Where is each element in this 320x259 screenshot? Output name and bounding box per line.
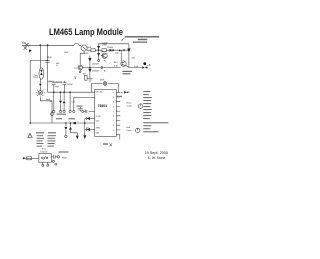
wire Q1 out xyxy=(83,67,121,69)
svg-text:1: 1 xyxy=(113,92,114,94)
capacitor C3 68uF xyxy=(47,45,49,60)
svg-text:7: 7 xyxy=(113,120,114,122)
capacitor C8 xyxy=(63,81,67,92)
wire Vdd bus xyxy=(48,91,95,93)
svg-text:100K: 100K xyxy=(64,52,69,54)
capacitor C6 pin-left xyxy=(84,110,95,113)
svg-text:100uF: 100uF xyxy=(67,84,74,86)
wire tap4 xyxy=(69,92,71,110)
svg-text:SBT: SBT xyxy=(114,62,119,64)
wire hot rail xyxy=(22,44,74,46)
svg-text:8: 8 xyxy=(113,125,114,127)
pins right xyxy=(116,92,120,139)
svg-text:220: 220 xyxy=(132,58,136,60)
ground small xyxy=(74,77,76,78)
svg-text:10K: 10K xyxy=(71,101,75,103)
svg-text:Code: Code xyxy=(127,105,133,107)
svg-text:C+: C+ xyxy=(56,65,59,67)
wire gnd drop xyxy=(84,119,86,136)
svg-text:2N440: 2N440 xyxy=(107,47,113,49)
diode D1 xyxy=(109,49,112,52)
resistor R1 xyxy=(91,49,95,52)
connector X marks xyxy=(24,43,29,50)
emitter terminal xyxy=(79,70,81,71)
notes column xyxy=(143,91,168,132)
diode D9 xyxy=(70,123,72,126)
warning triangle xyxy=(28,133,32,137)
prong arrow xyxy=(29,49,32,52)
diode D2 vertical xyxy=(128,44,130,68)
svg-text:TRIG: TRIG xyxy=(96,128,101,130)
wire to triac xyxy=(39,45,41,68)
svg-text:4: 4 xyxy=(113,106,114,108)
svg-text:A: A xyxy=(104,70,106,73)
capacitor C4 xyxy=(52,81,56,93)
diode D6 xyxy=(87,117,90,120)
transistor Q3 xyxy=(102,53,107,58)
svg-text:2x: 2x xyxy=(49,101,51,103)
svg-text:100K: 100K xyxy=(86,47,91,49)
svg-text:T2322: T2322 xyxy=(33,77,38,79)
svg-text:ZC IN: ZC IN xyxy=(96,116,101,118)
transistor Q1 xyxy=(80,51,84,65)
node zero crossing label xyxy=(123,71,133,72)
terminal MT1 xyxy=(23,157,25,159)
transistor Q2 zero-cross xyxy=(120,50,122,61)
fuse F1 xyxy=(81,45,87,51)
ground xyxy=(87,79,92,82)
svg-text:3.3K: 3.3K xyxy=(114,66,119,68)
svg-text:OSC IN: OSC IN xyxy=(96,92,103,94)
varistor RV1 xyxy=(50,112,53,117)
op-amp U1 78601 xyxy=(95,90,117,137)
wire lamp return xyxy=(40,98,52,123)
wire hop xyxy=(74,43,79,45)
svg-text:VSS: VSS xyxy=(96,132,100,134)
svg-text:1.5K: 1.5K xyxy=(134,66,139,68)
svg-text:7mF: 7mF xyxy=(55,87,60,89)
svg-text:Code: Code xyxy=(126,130,132,132)
svg-text:6: 6 xyxy=(113,116,114,118)
note top-right xyxy=(125,36,160,38)
capacitor C7 snubber xyxy=(59,151,69,152)
table xyxy=(36,132,56,146)
diode D14 xyxy=(119,49,121,51)
wire bypass xyxy=(99,43,129,46)
svg-text:455K: 455K xyxy=(100,79,105,81)
wire tap5 to IC xyxy=(74,97,95,110)
node +5 xyxy=(143,62,146,65)
wire tap1 xyxy=(53,92,55,110)
bottom-center marks xyxy=(103,143,108,144)
capacitor C9 xyxy=(76,106,82,107)
zener D3 xyxy=(60,92,62,100)
svg-text:5: 5 xyxy=(113,111,114,113)
svg-text:68uF: 68uF xyxy=(47,57,53,59)
wire zero-cross out xyxy=(126,65,143,67)
svg-text:Q1: Q1 xyxy=(74,68,77,70)
diode chain D11 D12 xyxy=(98,45,100,60)
svg-text:VDD: VDD xyxy=(96,121,100,123)
svg-text:68uF: 68uF xyxy=(62,157,68,159)
triac T1 xyxy=(39,68,44,79)
svg-text:Unit: Unit xyxy=(126,126,130,129)
svg-text:1N4148: 1N4148 xyxy=(92,64,99,66)
svg-text:19 Sept. 2000: 19 Sept. 2000 xyxy=(145,151,169,155)
wire triac to lamp xyxy=(39,79,41,84)
svg-text:Triac: Triac xyxy=(42,148,46,150)
resonator X1 xyxy=(91,83,118,85)
diode D10 out xyxy=(121,91,123,93)
svg-text:+5: +5 xyxy=(147,63,151,67)
svg-text:1.5K: 1.5K xyxy=(115,52,120,54)
wire left bus xyxy=(30,60,47,62)
svg-text:T2322D: T2322D xyxy=(40,151,48,153)
svg-text:+: + xyxy=(50,82,52,84)
diode D7 xyxy=(87,128,90,131)
gate leads xyxy=(43,162,48,164)
diode D4 D5 chain xyxy=(89,56,91,79)
svg-text:S. W. Stone: S. W. Stone xyxy=(148,156,166,160)
lamp LP1 xyxy=(39,86,41,90)
junction hot/triac xyxy=(39,44,41,46)
svg-text:78601: 78601 xyxy=(98,104,108,108)
svg-text:LM465 Lamp Module: LM465 Lamp Module xyxy=(49,27,123,38)
svg-text:9: 9 xyxy=(113,130,114,132)
svg-text:Haus: Haus xyxy=(127,102,133,104)
wire rail2 xyxy=(87,49,129,51)
terminal MT2 xyxy=(51,155,57,159)
lower bus taps xyxy=(65,122,67,124)
diode D13 xyxy=(63,92,65,100)
diode D8 xyxy=(65,123,67,127)
capacitor C1 xyxy=(102,49,106,52)
svg-text:1N4148: 1N4148 xyxy=(92,70,99,72)
jumper x xyxy=(123,49,125,51)
svg-text:3: 3 xyxy=(113,102,114,104)
svg-text:2: 2 xyxy=(113,97,114,99)
